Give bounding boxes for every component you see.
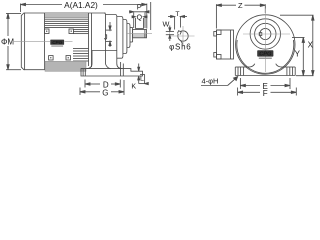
dimension W	[166, 26, 174, 42]
front view centerlines	[243, 9, 290, 73]
gear housing circle	[250, 19, 280, 49]
dimension PhiM line	[6, 14, 21, 70]
right foot front view	[276, 64, 296, 76]
svg-text:Z: Z	[238, 1, 243, 10]
shaft keyway notch	[259, 33, 262, 36]
dimension Y	[292, 38, 305, 76]
dimension G	[80, 80, 124, 95]
svg-text:P: P	[137, 3, 142, 12]
dimension Z	[216, 4, 265, 29]
dimension Q	[132, 16, 148, 29]
dimension E	[240, 78, 290, 89]
svg-text:4-φH: 4-φH	[202, 77, 219, 86]
svg-text:Q: Q	[137, 15, 143, 22]
svg-text:A(A1.A2): A(A1.A2)	[64, 0, 98, 10]
hub circle	[255, 23, 276, 44]
dimension A(A1,A2) line	[21, 3, 147, 28]
svg-text:J: J	[104, 32, 108, 41]
svg-text:F: F	[263, 89, 268, 98]
motor axis centerline	[14, 41, 50, 43]
output shaft	[133, 30, 147, 38]
svg-text:W: W	[163, 20, 170, 29]
section centerlines	[171, 26, 195, 47]
dimension D	[85, 80, 120, 88]
dimension L	[139, 74, 149, 84]
base line front view	[235, 75, 295, 77]
inner ring arc	[237, 40, 294, 73]
dimension P	[129, 11, 150, 28]
label 4-phiH with leader	[201, 77, 238, 86]
dimension K	[138, 64, 140, 84]
dimension J	[106, 22, 112, 47]
CPG logo left view	[50, 40, 64, 47]
motor bottom fins	[73, 49, 89, 62]
svg-text:L: L	[140, 76, 144, 83]
label PhiS h6 with leader	[181, 41, 183, 44]
svg-text:CPG: CPG	[52, 40, 62, 45]
gearbox stepped housing	[106, 15, 133, 69]
base extension line right	[296, 75, 314, 77]
svg-text:φSh6: φSh6	[169, 43, 191, 52]
dimension F	[238, 88, 297, 96]
svg-text:X: X	[308, 40, 314, 49]
svg-text:Y: Y	[295, 50, 301, 59]
gray base band under motor	[45, 61, 86, 71]
terminal box front view	[214, 30, 234, 59]
motor ribbed frame top fins	[45, 13, 106, 67]
extension line right	[150, 2, 152, 30]
svg-text:T: T	[175, 11, 179, 18]
motor front bracket	[104, 13, 111, 69]
svg-text:CPG: CPG	[259, 52, 272, 58]
left foot front view	[235, 64, 255, 76]
tie bolt squares	[45, 29, 74, 60]
shaft section circle	[177, 31, 188, 41]
output shaft centerline	[127, 33, 152, 35]
pedestal under gearbox	[87, 51, 117, 69]
svg-text:ΦM: ΦM	[1, 38, 14, 47]
svg-text:G: G	[102, 88, 108, 97]
CPG logo front view	[257, 50, 273, 59]
motor circle (rear body)	[236, 15, 295, 74]
svg-text:K: K	[131, 83, 136, 90]
dimension X	[280, 15, 314, 75]
dimension T	[168, 15, 187, 29]
motor rear fan cowl	[21, 13, 50, 70]
foot base plate left view	[81, 69, 143, 76]
shaft circle	[260, 28, 271, 39]
